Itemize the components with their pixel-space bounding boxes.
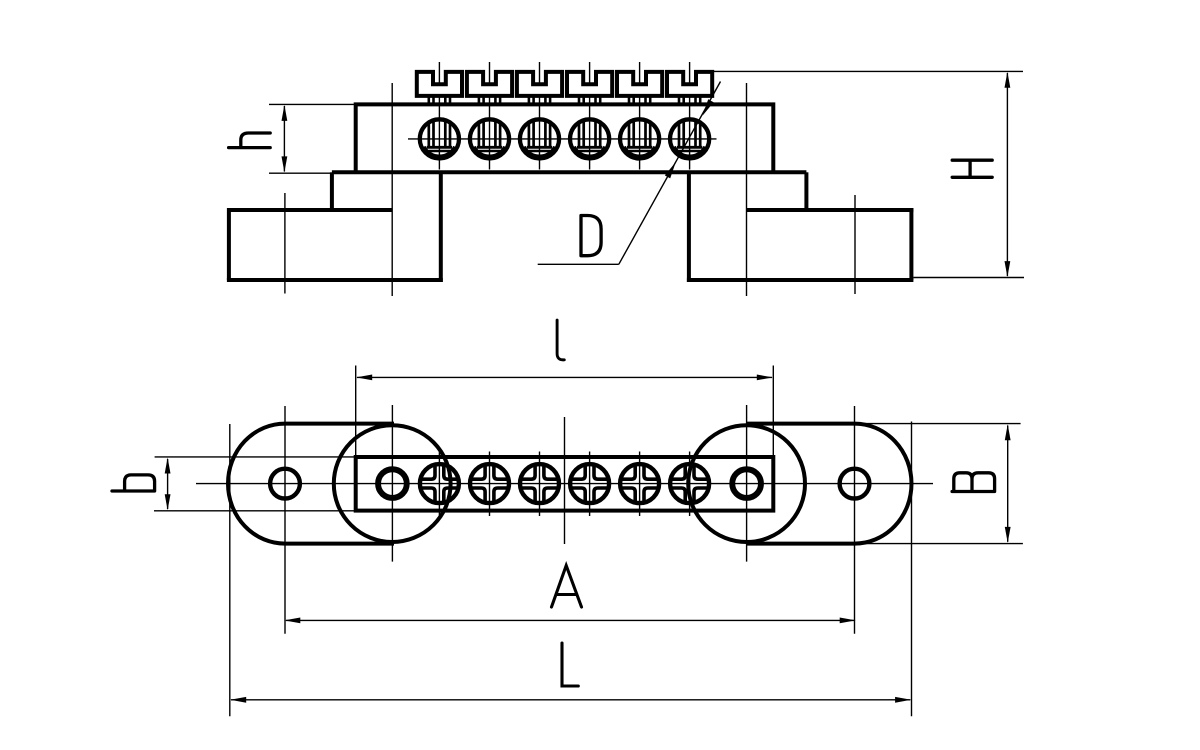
dimension l: left arrowhead [356, 375, 372, 381]
dimension H: bottom extension line [913, 277, 1024, 279]
plan screw V2 phillips cross [471, 465, 485, 479]
dimension B: bottom extension line [856, 543, 1023, 545]
plan view horizontal axis centerline [196, 483, 933, 485]
plan screw V1 phillips cross [421, 465, 435, 479]
screw V6 clamp bottom lines [677, 146, 702, 149]
left busbar end hole inner circle [380, 471, 405, 496]
dimension b: bottom extension line [154, 510, 356, 512]
plan screw V6 head circle [670, 464, 709, 503]
screw V2 hole bottom arc [474, 147, 504, 156]
plan screw V2 vertical centerline [489, 452, 491, 517]
plan screw V4 phillips cross [571, 465, 585, 479]
dimension b: lower arrowhead [165, 494, 171, 510]
front view horizontal centerline through holes [408, 138, 717, 140]
terminal hole circle of screw V4 [570, 119, 609, 158]
plan screw V6 phillips cross [671, 465, 685, 479]
label h (rotated) [229, 133, 271, 148]
screw V3 vertical centerline [539, 62, 541, 170]
dimension L: right arrowhead [895, 697, 911, 703]
screw V4 threaded shank [578, 96, 581, 103]
screw V5 threaded shank [628, 96, 631, 103]
left foot vertical centerline [284, 193, 286, 294]
screw V4 vertical centerline [589, 62, 591, 170]
screw V2 clamp bottom lines [477, 146, 502, 149]
label H (rotated) [952, 160, 992, 177]
screw V5 clamp bottom lines [627, 146, 652, 149]
left mounting ear hole [270, 469, 300, 499]
plan screw V1 vertical centerline [438, 452, 440, 517]
terminal hole circle of screw V5 [620, 119, 659, 158]
dimension l: left extension line [355, 366, 357, 456]
plan screw V5 phillips cross [621, 465, 635, 479]
screw V1 vertical centerline [438, 62, 440, 170]
dimension b: dimension line [167, 459, 169, 509]
screw V6 vertical centerline [689, 62, 691, 170]
dimension B: lower arrowhead [1005, 527, 1011, 543]
screw V1 threaded shank [427, 96, 430, 103]
plan screw V4 vertical centerline [589, 452, 591, 517]
screw V3 threaded shank [528, 96, 531, 103]
terminal hole circle of screw V1 [420, 119, 459, 158]
right insulator foot: left edge [687, 172, 691, 282]
screw V1 clamp bottom lines [427, 146, 452, 149]
dimension H: upper arrowhead [1005, 72, 1011, 88]
plan screw V3 vertical centerline [539, 452, 541, 517]
dimension H: lower arrowhead [1005, 261, 1011, 277]
right mounting ear hole [840, 469, 870, 499]
left insulator foot: step vertical [330, 172, 334, 210]
screw V5 hole bottom arc [625, 147, 655, 156]
screw V6 slotted head [667, 72, 712, 96]
dimension L: left extension line [229, 424, 231, 716]
screw V2 threaded shank [478, 96, 481, 103]
right insulator circle [688, 425, 805, 542]
plan screw V6 vertical centerline [689, 452, 691, 517]
plan view busbar outline [356, 457, 774, 511]
screw V5 vertical centerline [639, 62, 641, 170]
screw V6 hole bottom arc [675, 147, 705, 156]
screw V5 thread lines inside hole [628, 121, 631, 146]
dimension b: top extension line [155, 456, 356, 458]
right end hole vertical centerline [746, 405, 748, 562]
right insulator foot: base right edge [909, 208, 913, 280]
left ear hole centerline / A extension [284, 406, 286, 634]
dimension H: top extension line [706, 70, 1023, 72]
dimension h: upper arrowhead [282, 105, 288, 121]
left busbar end hole outer circle [377, 468, 407, 498]
left insulator foot: base top edge [227, 208, 392, 212]
right foot vertical centerline [854, 195, 856, 294]
dimension l: dimension line [357, 376, 772, 378]
dimension B: dimension line [1007, 426, 1009, 542]
label l [557, 320, 564, 360]
dimension L: right extension line [911, 422, 913, 717]
dimension L: dimension line [231, 699, 910, 701]
screw V3 thread lines inside hole [528, 121, 531, 146]
right insulator axis centerline [746, 83, 748, 296]
screw V4 clamp bottom lines [577, 146, 602, 149]
dimension h: bottom extension line [269, 172, 331, 174]
dimension h: lower arrowhead [282, 156, 288, 172]
front view: busbar bottom edge incl. insulator step tops [332, 170, 807, 174]
dimension l: right arrowhead [757, 375, 773, 381]
right insulator foot: base top edge [747, 208, 914, 212]
dimension H: dimension line [1006, 73, 1008, 276]
label D leader shelf [538, 263, 619, 265]
screw V5 slotted head [617, 72, 662, 96]
label b (rotated) [112, 475, 155, 491]
front view: busbar body outline [356, 104, 774, 172]
left insulator foot: base left edge [227, 208, 231, 280]
screw V3 slotted head [517, 72, 562, 96]
label D [581, 216, 601, 256]
screw V2 slotted head [467, 72, 512, 96]
left insulator foot: base bottom edge [227, 278, 443, 282]
screw V6 threaded shank [678, 96, 681, 103]
terminal hole circle of screw V3 [520, 119, 559, 158]
plan screw V1 head circle [420, 464, 459, 503]
dimension h: dimension line [283, 106, 285, 172]
label D leader arrowhead lower [665, 162, 676, 178]
plan screw V3 phillips cross [521, 465, 535, 479]
left insulator axis centerline [391, 83, 393, 296]
plan screw V2 head circle [470, 464, 509, 503]
plan screw V5 vertical centerline [639, 452, 641, 517]
dimension B: top extension line [856, 423, 1021, 425]
screw V4 hole bottom arc [575, 147, 605, 156]
dimension h: top extension line [269, 103, 355, 105]
screw V1 slotted head [417, 72, 462, 96]
screw V4 slotted head [567, 72, 612, 96]
right busbar end hole outer circle [731, 468, 761, 498]
plan screw V4 head circle [570, 464, 609, 503]
left mounting ear outline [228, 424, 394, 544]
dimension A: dimension line [286, 619, 854, 621]
label A [552, 566, 582, 608]
screw V1 thread lines inside hole [427, 121, 430, 146]
plan screw V3 head circle [520, 464, 559, 503]
right insulator foot: base bottom edge [687, 278, 914, 282]
dimension B: upper arrowhead [1005, 424, 1011, 440]
dimension A: left arrowhead [284, 618, 300, 624]
screw V3 hole bottom arc [524, 147, 554, 156]
screw V2 thread lines inside hole [478, 121, 481, 146]
right mounting ear outline [747, 424, 912, 544]
left insulator foot: right edge [439, 172, 443, 282]
terminal hole circle of screw V6 [670, 119, 709, 158]
left insulator circle [334, 425, 451, 542]
screw V2 vertical centerline [489, 62, 491, 170]
screw V6 thread lines inside hole [678, 121, 681, 146]
terminal hole circle of screw V2 [470, 119, 509, 158]
dimension b: upper arrowhead [165, 458, 171, 474]
right insulator foot: step vertical [804, 172, 808, 210]
label D leader arrowhead upper [703, 99, 714, 115]
right busbar end hole inner circle [734, 471, 759, 496]
dimension l: right extension line [772, 366, 774, 456]
label D leader diagonal through hole [619, 82, 721, 265]
label L [562, 643, 578, 686]
screw V4 thread lines inside hole [578, 121, 581, 146]
dimension L: left arrowhead [230, 697, 246, 703]
dimension A: right arrowhead [840, 618, 856, 624]
right ear hole centerline / A extension [854, 406, 856, 634]
plan view central vertical centerline [564, 417, 566, 544]
left end hole vertical centerline [391, 405, 393, 562]
screw V3 clamp bottom lines [527, 146, 552, 149]
screw V1 hole bottom arc [424, 147, 454, 156]
label B (rotated) [952, 473, 995, 492]
plan screw V5 head circle [620, 464, 659, 503]
